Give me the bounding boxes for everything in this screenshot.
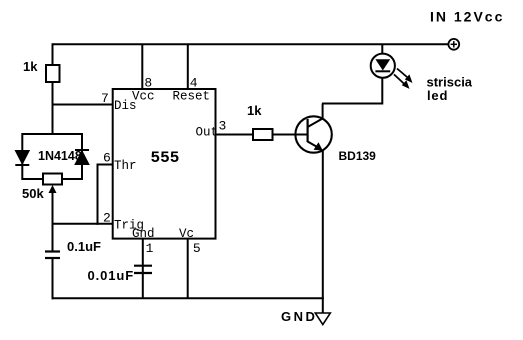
label led bbox=[427, 88, 448, 103]
op 555 timer IC U1 body bbox=[113, 89, 216, 239]
wire diode loop bottom edge bbox=[22, 178, 82, 180]
label striscia bbox=[427, 75, 473, 90]
label GND bbox=[281, 309, 317, 324]
wire to pin 7 Dis bbox=[52, 104, 113, 106]
svg-text:5: 5 bbox=[193, 241, 201, 256]
wire C1 to ground rail bbox=[52, 258, 54, 299]
svg-text:2: 2 bbox=[103, 211, 111, 226]
svg-text:555: 555 bbox=[151, 149, 180, 167]
wire rail to resistor R1 bbox=[52, 43, 54, 65]
ground symbol bbox=[315, 313, 330, 325]
svg-text:Vc: Vc bbox=[179, 227, 194, 241]
wire wiper down to C1 bbox=[52, 224, 54, 252]
svg-text:Thr: Thr bbox=[114, 159, 137, 173]
resistor R1 1k (vertical) bbox=[46, 65, 60, 82]
svg-text:50k: 50k bbox=[22, 186, 44, 201]
label 1N4148 bbox=[38, 149, 82, 163]
wire collector up bbox=[322, 104, 324, 120]
svg-text:3: 3 bbox=[219, 119, 227, 134]
pin label Dis bbox=[114, 99, 137, 113]
wire pin 4 to rail bbox=[187, 44, 189, 89]
svg-text:1k: 1k bbox=[23, 59, 38, 74]
svg-text:1N4148: 1N4148 bbox=[38, 149, 82, 163]
wire collector horizontal to LED bbox=[322, 103, 383, 105]
pin number 7 bbox=[101, 91, 109, 106]
svg-text:GND: GND bbox=[281, 309, 317, 324]
svg-text:0.01uF: 0.01uF bbox=[88, 268, 135, 283]
label 1k (R1) bbox=[23, 59, 38, 74]
pin number 4 bbox=[190, 76, 198, 91]
wire bottom ground rail bbox=[52, 297, 324, 299]
wire wiper to Trig (pin 2) bbox=[52, 223, 113, 225]
pin label Vc bbox=[179, 227, 194, 241]
pin number 1 bbox=[146, 241, 154, 256]
label BD139 bbox=[339, 149, 377, 163]
transistor Q1 BD139 bbox=[295, 116, 331, 152]
label 50k bbox=[22, 186, 44, 201]
pin label Out bbox=[196, 126, 219, 140]
LED light arrow 1 bbox=[397, 69, 413, 84]
wire pin 5 to ground rail bbox=[187, 239, 189, 299]
wire diode loop right branch bbox=[81, 133, 83, 180]
label 0.1uF bbox=[67, 239, 101, 254]
potentiometer 50k body bbox=[43, 174, 62, 185]
svg-text:8: 8 bbox=[144, 76, 152, 91]
diode D2 1N4148 (right, cathode up) bbox=[75, 150, 89, 165]
wire LED cathode down bbox=[381, 77, 383, 105]
svg-text:led: led bbox=[427, 88, 448, 103]
svg-text:0.1uF: 0.1uF bbox=[67, 239, 101, 254]
capacitor C1 0.1uF bbox=[45, 252, 60, 259]
terminal +12V (circled plus) bbox=[448, 39, 459, 50]
potentiometer wiper arrow bbox=[49, 185, 57, 225]
pin label Reset bbox=[173, 90, 211, 104]
wire diode loop left branch bbox=[21, 133, 23, 180]
wire Thr junction vertical bbox=[97, 164, 99, 225]
wire Thr stub (pin 6) bbox=[97, 164, 113, 166]
svg-text:7: 7 bbox=[101, 91, 109, 106]
svg-text:1k: 1k bbox=[247, 103, 262, 118]
wire pin 1 to ground rail bbox=[142, 239, 144, 299]
pin label Trig bbox=[114, 219, 144, 233]
diode D1 1N4148 (left, cathode down) bbox=[15, 151, 29, 166]
pin number 8 bbox=[144, 76, 152, 91]
wire LED anode to rail bbox=[381, 44, 383, 53]
label 555 bbox=[151, 149, 180, 167]
label 1k (R2) bbox=[247, 103, 262, 118]
svg-text:IN 12Vcc: IN 12Vcc bbox=[430, 9, 504, 25]
pin label Gnd bbox=[132, 227, 155, 241]
svg-text:1: 1 bbox=[146, 241, 154, 256]
svg-text:Out: Out bbox=[196, 126, 219, 140]
capacitor C2 0.01uF on pin 1 bbox=[134, 266, 152, 273]
pin number 5 bbox=[193, 241, 201, 256]
wire R1 to diode network top bbox=[52, 82, 54, 135]
pin number 3 bbox=[219, 119, 227, 134]
LED D3 striscia led bbox=[371, 54, 395, 78]
wire pin 8 to rail bbox=[141, 44, 143, 89]
wire R2 to base of Q1 bbox=[273, 134, 308, 136]
wire emitter to ground bbox=[322, 151, 324, 314]
LED light arrow 2 bbox=[394, 74, 410, 89]
wire top supply rail bbox=[53, 43, 449, 45]
label IN 12Vcc bbox=[430, 9, 504, 25]
svg-text:6: 6 bbox=[103, 151, 111, 166]
label 0.01uF bbox=[88, 268, 135, 283]
wire diode loop top edge bbox=[22, 133, 82, 135]
pin number 6 bbox=[103, 151, 111, 166]
pin number 2 bbox=[103, 211, 111, 226]
svg-text:Reset: Reset bbox=[173, 90, 211, 104]
pin label Thr bbox=[114, 159, 137, 173]
wire Out pin 3 to R2 bbox=[216, 134, 254, 136]
svg-text:4: 4 bbox=[190, 76, 198, 91]
pin label Vcc bbox=[132, 90, 155, 104]
resistor R2 1k (horizontal) bbox=[253, 129, 273, 140]
svg-text:Dis: Dis bbox=[114, 99, 137, 113]
svg-text:BD139: BD139 bbox=[339, 149, 377, 163]
